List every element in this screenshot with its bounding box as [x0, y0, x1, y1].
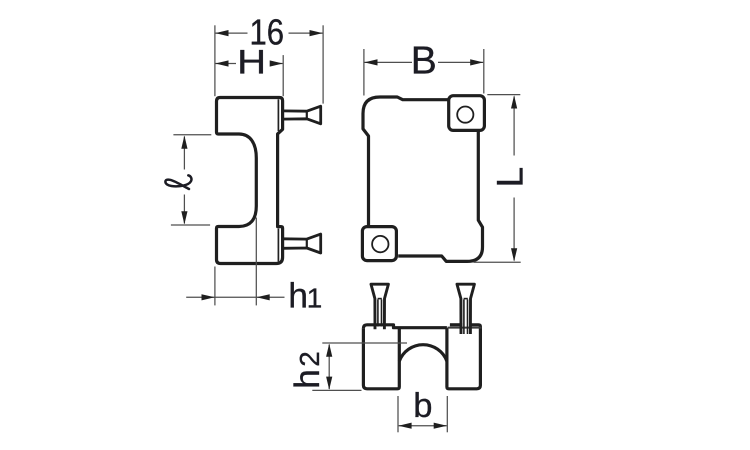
dimension h2 (front view left): [312, 343, 407, 390]
plan view nail hole bottom-left: [372, 236, 388, 252]
dimension h1 (side view bottom): [186, 218, 284, 306]
label L: [489, 167, 531, 188]
plan view body outline (top-right view): [363, 97, 483, 261]
side view body (C-shaped clip silhouette): [217, 98, 283, 264]
dimension H (side view): [216, 55, 284, 96]
label h2: [287, 351, 327, 389]
plan view nail hole top-right: [457, 107, 473, 123]
plan view mounting tab top-right: [449, 96, 485, 131]
svg-text:h: h: [287, 369, 327, 389]
dimension B (plan view top): [364, 49, 484, 96]
side view lower nail: [283, 234, 321, 253]
front view far-side edge line across right foot: [448, 327, 482, 329]
side view inner edge line on top block: [277, 99, 279, 131]
plan view mounting tab bottom-left: [362, 227, 396, 261]
front view left nail: [371, 284, 388, 329]
svg-text:2: 2: [294, 351, 325, 367]
dimension l (script ell, side view left): [171, 135, 211, 225]
svg-text:L: L: [489, 167, 531, 188]
svg-text:1: 1: [307, 283, 323, 314]
dimension 16 (top, side view): [215, 25, 323, 103]
front view body (two feet with arch): [363, 325, 480, 389]
svg-text:h: h: [288, 276, 308, 316]
svg-text:H: H: [237, 43, 266, 81]
svg-text:B: B: [411, 40, 437, 83]
side view upper nail: [283, 106, 321, 124]
side view inner edge line on bottom block: [277, 229, 279, 262]
front view right nail: [457, 284, 474, 334]
label script ell: [165, 175, 191, 189]
svg-text:b: b: [413, 387, 432, 425]
dimension b (front view bottom): [398, 396, 447, 432]
dimension L (plan view right): [474, 95, 521, 263]
